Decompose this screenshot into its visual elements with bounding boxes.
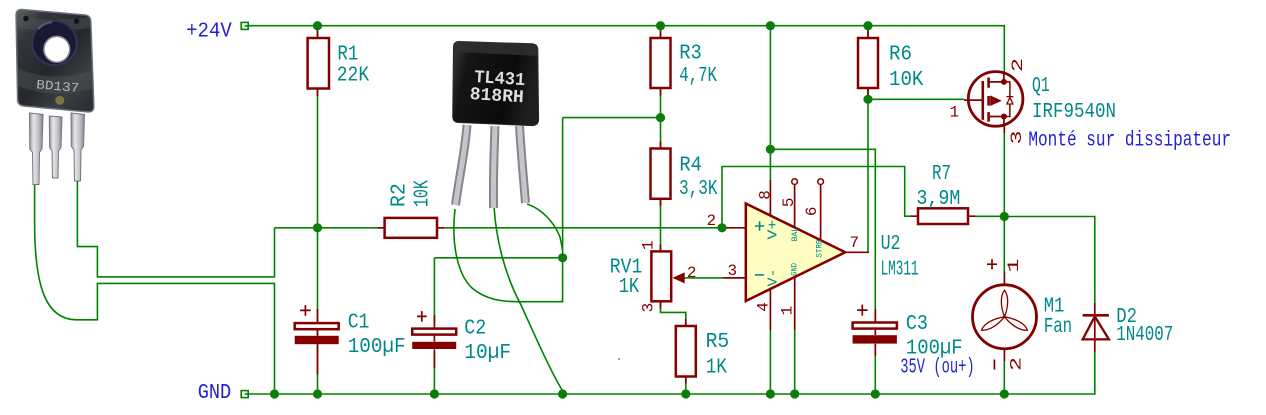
resistor R3 bbox=[651, 38, 671, 88]
op-amp pin 2 bbox=[723, 227, 746, 229]
svg-text:R1: R1 bbox=[337, 44, 358, 67]
svg-text:C1: C1 bbox=[348, 312, 370, 335]
wire drain to D2 bbox=[1004, 217, 1095, 304]
resistor R1 bbox=[308, 38, 329, 89]
svg-text:Monté sur dissipateur: Monté sur dissipateur bbox=[1028, 130, 1231, 153]
svg-text:2: 2 bbox=[687, 264, 697, 282]
svg-text:1: 1 bbox=[779, 306, 797, 316]
op-amp minus mark bbox=[755, 274, 764, 276]
svg-text:10K: 10K bbox=[412, 180, 435, 207]
svg-text:R4: R4 bbox=[679, 155, 702, 178]
svg-text:1: 1 bbox=[950, 104, 960, 122]
svg-text:M1: M1 bbox=[1044, 296, 1065, 319]
wire BD137 left leg to GND bbox=[35, 183, 275, 394]
svg-text:IRF9540N: IRF9540N bbox=[1032, 101, 1116, 124]
potentiometer RV1 body bbox=[651, 251, 671, 301]
svg-text:10µF: 10µF bbox=[464, 342, 511, 365]
connector square +24V bbox=[241, 22, 248, 29]
pin stubs resistor R5 bbox=[685, 319, 687, 384]
svg-text:BAL: BAL bbox=[791, 227, 800, 242]
svg-text:R7: R7 bbox=[932, 163, 951, 186]
pin stubs resistor R4 bbox=[660, 142, 662, 207]
svg-text:3: 3 bbox=[728, 262, 738, 280]
op-amp pin 1 bbox=[794, 277, 796, 330]
connector square GND bbox=[241, 391, 248, 398]
svg-text:U2: U2 bbox=[881, 233, 901, 256]
TL431 body bbox=[453, 41, 539, 125]
pin stubs resistor R1 bbox=[317, 31, 319, 97]
svg-text:1K: 1K bbox=[619, 276, 640, 299]
op-amp plus mark bbox=[755, 221, 764, 230]
wire R6 column to pin7 bbox=[867, 26, 869, 253]
resistor R7 bbox=[918, 208, 968, 224]
svg-text:2: 2 bbox=[1007, 357, 1025, 371]
pin stub capacitor C3 bbox=[874, 309, 876, 356]
svg-text:1N4007: 1N4007 bbox=[1116, 324, 1173, 347]
svg-text:R6: R6 bbox=[889, 43, 912, 66]
svg-text:V-: V- bbox=[766, 269, 782, 287]
transistor Q1 circle bbox=[968, 72, 1023, 127]
svg-text:3: 3 bbox=[1008, 131, 1026, 145]
pin stub capacitor C1 bbox=[317, 309, 319, 374]
capacitor C2 bbox=[412, 329, 456, 335]
wire TL431 anode leg curve to GND bbox=[494, 206, 563, 391]
svg-text:V+: V+ bbox=[766, 220, 782, 240]
svg-text:R2: R2 bbox=[388, 183, 411, 207]
wire pin2 row bbox=[275, 227, 724, 229]
svg-text:35V (ou+): 35V (ou+) bbox=[900, 357, 974, 380]
svg-text:8: 8 bbox=[756, 190, 774, 200]
wire TL431 cathode leg curve bbox=[527, 204, 563, 250]
wire C3 bottom bbox=[874, 350, 876, 394]
motor plus mark bbox=[987, 259, 997, 269]
capacitor C1 bbox=[295, 323, 339, 329]
pin stubs resistor R7 bbox=[911, 215, 975, 217]
svg-text:GND: GND bbox=[198, 382, 232, 405]
op-amp pin 3 bbox=[723, 277, 746, 279]
op-amp pin 6 bbox=[818, 179, 824, 185]
svg-text:LM311: LM311 bbox=[881, 259, 919, 282]
wire cathode node to R3/R4 junction bbox=[563, 117, 661, 119]
Q1 source/drain links bbox=[990, 72, 1004, 127]
motor minus mark rotated bbox=[993, 360, 995, 370]
op-amp pin 8 bbox=[769, 180, 771, 216]
Q1 terminal dots bbox=[1001, 79, 1007, 85]
wire BD137 right leg to R2 node bbox=[77, 180, 274, 277]
svg-text:STRB: STRB bbox=[816, 239, 825, 257]
op-amp pin 5 bbox=[792, 179, 798, 185]
wire motor bottom bbox=[1003, 361, 1005, 394]
svg-text:100µF: 100µF bbox=[348, 336, 406, 359]
svg-text:6: 6 bbox=[803, 206, 821, 216]
svg-text:818RH: 818RH bbox=[469, 85, 524, 108]
wire R3/R4/RV1 column bbox=[660, 26, 662, 252]
svg-text:3,9M: 3,9M bbox=[916, 188, 960, 211]
TL431 legs bbox=[456, 125, 468, 205]
svg-text:7: 7 bbox=[850, 234, 860, 252]
wire gate row bbox=[868, 98, 964, 100]
op-amp U2 triangle bbox=[746, 204, 845, 302]
wire GND bottom rail bbox=[248, 352, 1095, 394]
svg-text:10K: 10K bbox=[889, 69, 924, 92]
svg-text:4: 4 bbox=[754, 302, 772, 312]
resistor R6 bbox=[858, 38, 878, 88]
wire pin1 to GND bbox=[794, 330, 796, 394]
svg-text:C3: C3 bbox=[906, 313, 928, 336]
svg-text:3,3K: 3,3K bbox=[679, 178, 718, 201]
Q1 channel dashes bbox=[987, 78, 990, 122]
photo TL431 bbox=[453, 41, 539, 208]
Q1 arrow bbox=[990, 95, 1002, 106]
svg-text:2: 2 bbox=[1009, 58, 1027, 72]
svg-text:1: 1 bbox=[640, 240, 658, 250]
motor M1 circle bbox=[973, 285, 1037, 349]
svg-text:5: 5 bbox=[780, 197, 798, 207]
wire R7 feedback path bbox=[722, 167, 912, 228]
svg-text:4,7K: 4,7K bbox=[679, 65, 717, 88]
svg-text:Q1: Q1 bbox=[1032, 75, 1050, 98]
potentiometer RV1 wiper arrow bbox=[672, 272, 684, 283]
wire cathode node column bbox=[519, 118, 563, 302]
pin stubs potentiometer RV1 bbox=[660, 245, 662, 309]
svg-text:R5: R5 bbox=[706, 331, 730, 354]
diode D2 bbox=[1094, 303, 1096, 352]
pin stubs resistor R6 bbox=[867, 31, 869, 96]
Q1 body loop with diode bbox=[1004, 82, 1010, 117]
wire C2 link to cathode node bbox=[434, 257, 562, 259]
op-amp pin 7 bbox=[845, 251, 869, 253]
capacitor C3 bbox=[853, 323, 897, 329]
Q1 drain pin stub bbox=[1003, 126, 1005, 133]
svg-text:1: 1 bbox=[1005, 258, 1023, 272]
wire R7 right to drain bbox=[974, 215, 1004, 217]
pin stubs resistor R3 bbox=[660, 31, 662, 96]
wire +24V top rail bbox=[248, 26, 1004, 72]
svg-text:Fan: Fan bbox=[1044, 316, 1073, 339]
wire RV1 to R5 and GND bbox=[661, 301, 686, 394]
svg-text:R3: R3 bbox=[679, 43, 702, 66]
Q1 gate pin bbox=[964, 99, 982, 101]
wire drain column bbox=[1003, 131, 1005, 272]
pin stub capacitor C2 bbox=[433, 315, 435, 368]
wire C2 column bbox=[433, 258, 435, 394]
resistor R2 bbox=[385, 218, 437, 238]
svg-text:1K: 1K bbox=[706, 357, 728, 380]
motor pin stubs bbox=[1003, 272, 1005, 362]
svg-text:GND: GND bbox=[790, 263, 799, 276]
svg-text:2: 2 bbox=[707, 212, 717, 230]
resistor R5 bbox=[676, 326, 696, 377]
resistor R4 bbox=[651, 149, 671, 199]
Q1 gate bar bbox=[981, 81, 984, 120]
BD137 legs bbox=[30, 113, 44, 185]
motor fan blades bbox=[980, 290, 1029, 332]
wire R1/C1 column bbox=[317, 26, 319, 394]
svg-text:3: 3 bbox=[640, 303, 658, 313]
pin stubs resistor R2 bbox=[378, 227, 445, 229]
svg-text:22K: 22K bbox=[337, 65, 370, 88]
svg-text:+24V: +24V bbox=[186, 21, 232, 44]
stray dot artifact bbox=[618, 358, 620, 360]
wire V+ to C3 branch bbox=[770, 149, 875, 322]
wire TL431 REF leg curve bbox=[454, 209, 519, 302]
op-amp pin 4 bbox=[769, 289, 771, 330]
wire pin3 row bbox=[685, 277, 723, 279]
photo BD137 transistor bbox=[16, 9, 94, 184]
wire V+ column bbox=[769, 26, 771, 181]
wire pin4 to GND bbox=[769, 330, 771, 394]
svg-text:C2: C2 bbox=[464, 318, 486, 341]
